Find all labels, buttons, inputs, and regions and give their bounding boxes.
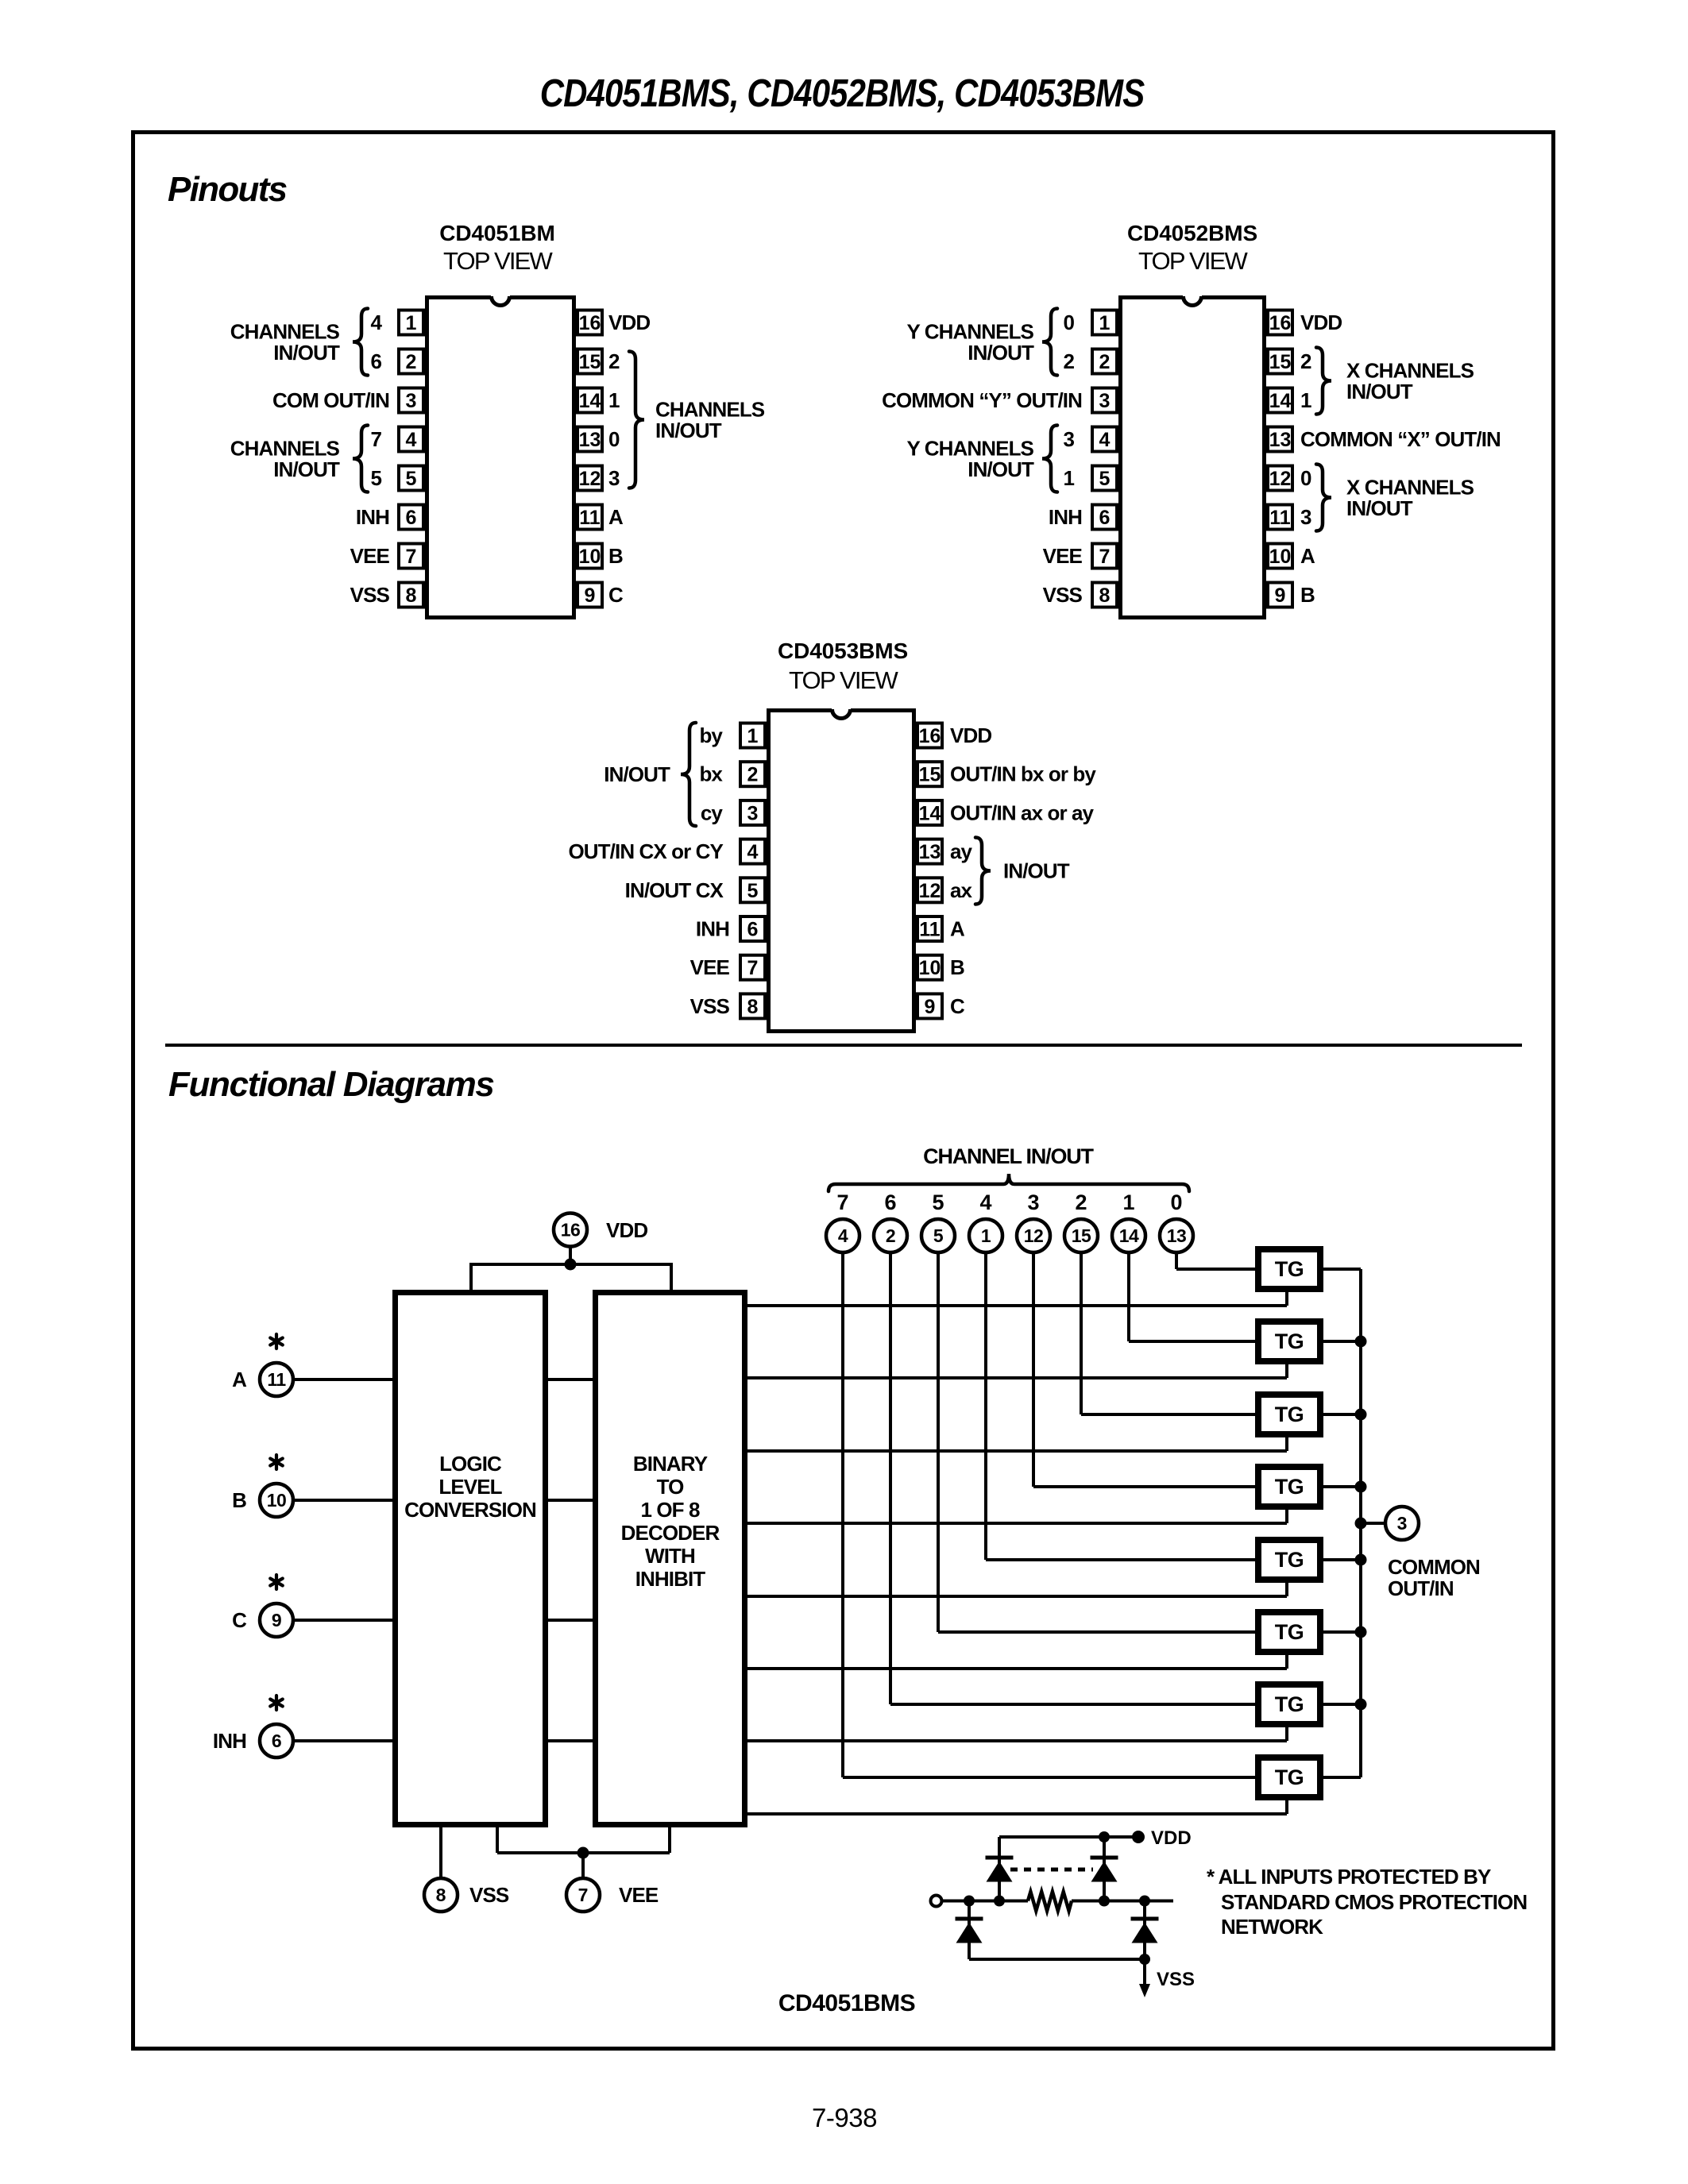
svg-text:TG: TG	[1275, 1548, 1304, 1572]
svg-text:CHANNELS: CHANNELS	[655, 398, 765, 422]
svg-text:5: 5	[370, 466, 381, 490]
svg-text:X CHANNELS: X CHANNELS	[1346, 359, 1474, 383]
svg-text:bx: bx	[699, 762, 723, 786]
svg-text:COM OUT/IN: COM OUT/IN	[272, 388, 389, 412]
svg-text:12: 12	[919, 880, 941, 902]
svg-text:Functional Diagrams: Functional Diagrams	[168, 1065, 494, 1104]
svg-text:6: 6	[1099, 507, 1111, 529]
svg-text:16: 16	[561, 1220, 581, 1241]
svg-text:2: 2	[1075, 1190, 1087, 1214]
svg-text:3: 3	[1099, 390, 1111, 412]
svg-text:TG: TG	[1275, 1257, 1304, 1281]
svg-text:WITH: WITH	[645, 1544, 695, 1568]
svg-text:10: 10	[267, 1490, 287, 1511]
svg-text:4: 4	[747, 841, 759, 863]
svg-text:14: 14	[1119, 1225, 1139, 1246]
svg-text:TG: TG	[1275, 1765, 1304, 1789]
svg-text:9: 9	[925, 996, 936, 1018]
svg-text:12: 12	[1024, 1225, 1044, 1246]
svg-text:16: 16	[919, 725, 941, 747]
svg-text:VSS: VSS	[469, 1883, 509, 1907]
svg-text:2: 2	[1099, 351, 1111, 373]
svg-text:CD4051BM: CD4051BM	[439, 221, 554, 245]
svg-text:INH: INH	[356, 505, 389, 529]
svg-text:VSS: VSS	[1157, 1969, 1195, 1990]
svg-text:11: 11	[267, 1369, 286, 1390]
svg-text:1: 1	[608, 388, 620, 412]
svg-text:B: B	[950, 955, 964, 979]
svg-text:2: 2	[886, 1225, 895, 1246]
svg-text:Y CHANNELS: Y CHANNELS	[906, 320, 1033, 344]
svg-text:3: 3	[1300, 505, 1311, 529]
svg-text:INH: INH	[1049, 505, 1082, 529]
svg-text:VDD: VDD	[1300, 311, 1342, 334]
svg-text:LEVEL: LEVEL	[438, 1475, 502, 1499]
svg-text:9: 9	[585, 585, 596, 607]
svg-text:1: 1	[1099, 312, 1111, 334]
svg-text:IN/OUT: IN/OUT	[1003, 859, 1070, 883]
svg-text:CHANNEL IN/OUT: CHANNEL IN/OUT	[923, 1144, 1094, 1168]
svg-text:1: 1	[981, 1225, 991, 1246]
svg-text:8: 8	[1099, 585, 1111, 607]
svg-text:7-938: 7-938	[812, 2103, 877, 2132]
svg-text:5: 5	[1099, 468, 1111, 490]
svg-text:VDD: VDD	[1151, 1827, 1192, 1849]
svg-text:A: A	[608, 505, 624, 529]
svg-text:OUT/IN CX or CY: OUT/IN CX or CY	[568, 839, 723, 863]
svg-text:1: 1	[1122, 1190, 1134, 1214]
svg-text:TG: TG	[1275, 1403, 1304, 1426]
svg-text:4: 4	[370, 311, 382, 334]
svg-text:3: 3	[608, 466, 620, 490]
svg-text:COMMON “Y” OUT/IN: COMMON “Y” OUT/IN	[882, 388, 1082, 412]
svg-text:INHIBIT: INHIBIT	[635, 1567, 706, 1591]
svg-text:10: 10	[579, 546, 601, 568]
svg-text:CD4051BMS, CD4052BMS, CD4053BM: CD4051BMS, CD4052BMS, CD4053BMS	[540, 71, 1145, 115]
svg-text:OUT/IN ax or ay: OUT/IN ax or ay	[950, 801, 1095, 824]
svg-text:NETWORK: NETWORK	[1221, 1915, 1323, 1939]
svg-text:1: 1	[747, 725, 759, 747]
svg-text:4: 4	[406, 429, 417, 451]
svg-text:CD4052BMS: CD4052BMS	[1127, 221, 1257, 245]
svg-text:14: 14	[1269, 390, 1292, 412]
svg-text:C: C	[232, 1608, 247, 1632]
svg-text:13: 13	[1269, 429, 1292, 451]
svg-text:3: 3	[1027, 1190, 1039, 1214]
svg-text:3: 3	[1397, 1513, 1408, 1534]
svg-text:TOP VIEW: TOP VIEW	[1138, 247, 1249, 275]
svg-text:12: 12	[579, 468, 601, 490]
svg-text:A: A	[1300, 544, 1315, 568]
svg-text:7: 7	[370, 427, 381, 451]
svg-text:VEE: VEE	[619, 1883, 659, 1907]
svg-text:IN/OUT: IN/OUT	[273, 457, 340, 481]
svg-text:1: 1	[406, 312, 417, 334]
svg-text:11: 11	[919, 919, 941, 941]
svg-text:TO: TO	[657, 1475, 685, 1499]
svg-text:A: A	[950, 917, 965, 941]
svg-text:2: 2	[1063, 349, 1074, 373]
svg-text:TG: TG	[1275, 1692, 1304, 1716]
svg-text:7: 7	[406, 546, 417, 568]
svg-text:13: 13	[919, 841, 941, 863]
svg-text:cy: cy	[701, 801, 724, 824]
svg-text:IN/OUT: IN/OUT	[604, 762, 670, 786]
svg-text:10: 10	[919, 957, 941, 979]
svg-text:3: 3	[747, 802, 759, 824]
svg-text:2: 2	[1300, 349, 1311, 373]
svg-text:TOP VIEW: TOP VIEW	[443, 247, 554, 275]
svg-text:OUT/IN: OUT/IN	[1388, 1576, 1454, 1600]
svg-text:X CHANNELS: X CHANNELS	[1346, 476, 1474, 500]
svg-text:STANDARD CMOS PROTECTION: STANDARD CMOS PROTECTION	[1221, 1890, 1527, 1914]
svg-text:COMMON: COMMON	[1388, 1555, 1480, 1579]
svg-text:Y CHANNELS: Y CHANNELS	[906, 437, 1033, 461]
svg-text:9: 9	[1275, 585, 1286, 607]
svg-text:7: 7	[747, 957, 759, 979]
svg-text:10: 10	[1269, 546, 1292, 568]
svg-text:11: 11	[579, 507, 601, 529]
svg-text:8: 8	[436, 1885, 446, 1905]
svg-text:1: 1	[1063, 466, 1074, 490]
svg-text:INH: INH	[696, 917, 729, 941]
svg-text:DECODER: DECODER	[621, 1521, 720, 1545]
svg-text:16: 16	[1269, 312, 1292, 334]
svg-text:B: B	[608, 544, 623, 568]
svg-text:5: 5	[932, 1190, 944, 1214]
svg-text:4: 4	[979, 1190, 991, 1214]
svg-text:CONVERSION: CONVERSION	[404, 1498, 536, 1522]
svg-text:12: 12	[1269, 468, 1292, 490]
svg-text:4: 4	[1099, 429, 1111, 451]
svg-text:0: 0	[1300, 466, 1311, 490]
svg-text:IN/OUT: IN/OUT	[968, 341, 1034, 365]
svg-text:5: 5	[747, 880, 759, 902]
svg-text:0: 0	[608, 427, 620, 451]
svg-text:VEE: VEE	[350, 544, 390, 568]
svg-text:TG: TG	[1275, 1475, 1304, 1499]
svg-text:1: 1	[1300, 388, 1311, 412]
svg-text:INH: INH	[213, 1729, 246, 1753]
svg-text:5: 5	[933, 1225, 944, 1246]
svg-text:TG: TG	[1275, 1329, 1304, 1353]
svg-text:2: 2	[747, 764, 759, 786]
svg-text:OUT/IN bx or by: OUT/IN bx or by	[950, 762, 1096, 786]
svg-text:ax: ax	[950, 878, 973, 902]
svg-text:6: 6	[747, 919, 759, 941]
svg-text:3: 3	[406, 390, 417, 412]
svg-text:ay: ay	[950, 839, 973, 863]
svg-text:VEE: VEE	[1043, 544, 1083, 568]
svg-text:7: 7	[836, 1190, 848, 1214]
svg-text:C: C	[950, 994, 965, 1018]
svg-text:7: 7	[1099, 546, 1111, 568]
svg-text:B: B	[1300, 583, 1315, 607]
svg-text:6: 6	[370, 349, 381, 373]
svg-text:A: A	[232, 1368, 247, 1391]
svg-text:9: 9	[272, 1610, 281, 1630]
svg-text:CD4051BMS: CD4051BMS	[778, 1990, 915, 2016]
svg-text:5: 5	[406, 468, 417, 490]
svg-text:6: 6	[884, 1190, 896, 1214]
svg-text:IN/OUT: IN/OUT	[968, 457, 1034, 481]
svg-text:4: 4	[838, 1225, 848, 1246]
svg-text:by: by	[699, 723, 723, 747]
svg-text:IN/OUT: IN/OUT	[1346, 380, 1413, 403]
svg-text:BINARY: BINARY	[633, 1452, 708, 1476]
svg-text:15: 15	[1072, 1225, 1091, 1246]
svg-text:1 OF 8: 1 OF 8	[640, 1498, 700, 1522]
svg-text:0: 0	[1170, 1190, 1182, 1214]
svg-text:B: B	[232, 1488, 246, 1512]
svg-text:VSS: VSS	[350, 583, 390, 607]
svg-text:16: 16	[579, 312, 601, 334]
svg-text:14: 14	[919, 802, 941, 824]
svg-text:15: 15	[919, 764, 941, 786]
svg-text:TG: TG	[1275, 1620, 1304, 1644]
svg-text:8: 8	[406, 585, 417, 607]
svg-text:VSS: VSS	[1043, 583, 1083, 607]
svg-text:VDD: VDD	[606, 1218, 647, 1242]
svg-text:IN/OUT: IN/OUT	[655, 419, 722, 442]
svg-text:CD4053BMS: CD4053BMS	[778, 639, 908, 663]
svg-text:* ALL INPUTS PROTECTED BY: * ALL INPUTS PROTECTED BY	[1207, 1865, 1491, 1889]
svg-text:14: 14	[579, 390, 601, 412]
svg-text:3: 3	[1063, 427, 1074, 451]
svg-text:7: 7	[578, 1885, 589, 1905]
svg-text:VDD: VDD	[950, 723, 991, 747]
svg-text:VEE: VEE	[690, 955, 730, 979]
svg-text:6: 6	[406, 507, 417, 529]
svg-text:CHANNELS: CHANNELS	[230, 437, 340, 461]
svg-text:IN/OUT CX: IN/OUT CX	[625, 878, 724, 902]
svg-text:6: 6	[272, 1731, 281, 1751]
svg-text:CHANNELS: CHANNELS	[230, 320, 340, 344]
svg-text:11: 11	[1269, 507, 1291, 529]
svg-text:13: 13	[1167, 1225, 1187, 1246]
svg-text:0: 0	[1063, 311, 1074, 334]
svg-text:IN/OUT: IN/OUT	[1346, 496, 1413, 520]
svg-text:LOGIC: LOGIC	[439, 1452, 502, 1476]
svg-text:C: C	[608, 583, 624, 607]
svg-text:15: 15	[1269, 351, 1292, 373]
svg-text:COMMON “X” OUT/IN: COMMON “X” OUT/IN	[1300, 427, 1501, 451]
svg-text:VSS: VSS	[690, 994, 730, 1018]
svg-text:2: 2	[406, 351, 417, 373]
svg-text:15: 15	[579, 351, 601, 373]
svg-text:Pinouts: Pinouts	[168, 170, 287, 209]
svg-text:VDD: VDD	[608, 311, 650, 334]
svg-text:13: 13	[579, 429, 601, 451]
svg-text:IN/OUT: IN/OUT	[273, 341, 340, 365]
svg-text:2: 2	[608, 349, 620, 373]
svg-text:8: 8	[747, 996, 759, 1018]
svg-text:TOP VIEW: TOP VIEW	[789, 666, 899, 694]
